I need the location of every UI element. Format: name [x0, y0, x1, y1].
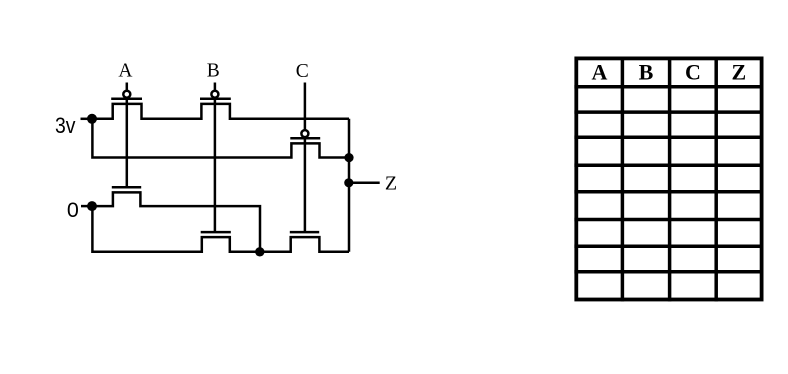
truth table row line 8: [574, 270, 763, 274]
transistor Q4 NMOS gate bar (input A): [112, 186, 141, 189]
node output junction dot upper: [344, 153, 353, 162]
transistor Q3 PMOS gate bar: [290, 137, 320, 140]
truth table row line 3: [574, 135, 763, 139]
wire 0 stub: [81, 205, 92, 208]
svg-text:3v: 3v: [55, 113, 76, 138]
svg-text:C: C: [685, 60, 701, 85]
truth table column line 1: [621, 57, 625, 302]
wire 3v stub: [81, 118, 93, 121]
wire 3v top rail with PMOS A and PMOS B source-drain bumps: [92, 104, 349, 119]
wire 3v branch to PMOS C source with PMOS C bump: [92, 118, 349, 158]
truth table row line 4: [574, 164, 763, 168]
truth table row line 5: [574, 190, 763, 194]
svg-text:Z: Z: [732, 60, 747, 85]
transistor Q1 PMOS gate bar: [111, 97, 142, 100]
transistor Q6 NMOS gate bar (input C): [290, 231, 319, 234]
truth table header separator: [574, 85, 763, 89]
node 3v junction dot: [87, 114, 97, 124]
svg-text:A: A: [118, 61, 132, 82]
svg-text:A: A: [591, 60, 607, 85]
truth table: [574, 57, 763, 302]
svg-text:C: C: [296, 61, 309, 82]
svg-text:0: 0: [67, 198, 79, 222]
node bottom rail junction dot: [255, 247, 264, 256]
transistor Q2 PMOS gate stub: [214, 83, 217, 91]
wire gate B vertical: [214, 98, 217, 232]
transistor Q3 PMOS gate bubble: [301, 130, 308, 137]
wire 0 rail with NMOS A bump and drain drop: [92, 192, 260, 251]
truth table outer border: [576, 58, 761, 299]
node 0 junction dot: [87, 201, 97, 211]
transistor Q1 PMOS gate stub: [126, 83, 129, 91]
wire gate C upper vertical: [304, 83, 307, 131]
wire 0 branch bottom rail with NMOS B and NMOS C bumps: [92, 205, 349, 252]
wire gate C lower vertical: [304, 137, 307, 232]
truth table row line 2: [574, 110, 763, 114]
wire gate A vertical: [126, 98, 129, 188]
truth table row line 7: [574, 244, 763, 248]
wire output right vertical: [348, 119, 351, 252]
transistor Q5 NMOS gate bar (input B): [201, 231, 231, 234]
transistor Q2 PMOS gate bubble: [211, 91, 218, 98]
wire Z stub: [349, 182, 380, 185]
truth table column line 2: [668, 57, 672, 302]
transistor Q1 PMOS gate bubble: [123, 91, 130, 98]
svg-text:B: B: [207, 61, 220, 82]
node Z junction dot: [344, 178, 353, 187]
svg-text:B: B: [639, 60, 654, 85]
svg-text:Z: Z: [385, 173, 397, 195]
truth table row line 6: [574, 218, 763, 222]
transistor Q2 PMOS gate bar: [200, 97, 231, 100]
truth table column line 3: [714, 57, 718, 302]
